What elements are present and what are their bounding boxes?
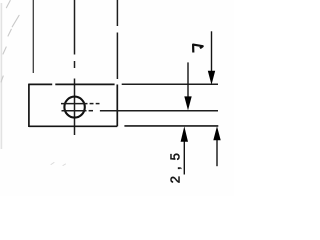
vertical centerline through hole (dash-dot, runs from top into part) xyxy=(74,0,76,135)
dimension 7: value label xyxy=(193,45,203,53)
scan artifact: gray bar along left edge xyxy=(1,3,3,149)
part outline: block bottom edge xyxy=(29,125,117,127)
dimension 2,5: value label xyxy=(168,147,183,183)
svg-text:2,5: 2,5 xyxy=(168,147,183,183)
part outline: rectangular block, top edge (with scan gap) xyxy=(29,83,115,85)
upper line through hole (dash-dot centerline) xyxy=(61,103,100,105)
vertical edge line upper left (from cropped part above) xyxy=(32,0,34,73)
dimension 7: lower arrow (points up to tab bottom) xyxy=(213,126,220,166)
extension line of block top edge to the right xyxy=(122,83,218,85)
dimension 7: upper arrow (points down to block top extension) xyxy=(208,31,215,85)
scan artifact: faint specks lower middle xyxy=(51,163,66,166)
dimension 2,5: upper arrow (points down to tab top) xyxy=(184,62,191,110)
vertical edge line upper right (from cropped part above, with gap) xyxy=(116,0,118,79)
scan artifact: faint diagonal pencil marks upper left xyxy=(1,1,19,83)
hole circle xyxy=(64,97,84,118)
part outline: block right edge xyxy=(116,85,118,127)
tab top edge line (runs through hole area as dashes, then solid to right) xyxy=(62,110,219,112)
part outline: block left edge xyxy=(28,84,30,127)
dimension 2,5: lower arrow (points up to tab bottom) xyxy=(181,126,188,174)
tab bottom edge line xyxy=(124,125,218,127)
